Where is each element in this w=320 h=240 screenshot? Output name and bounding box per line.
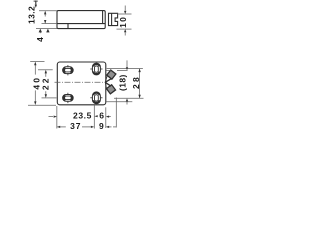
13.2 down arrow <box>44 20 46 24</box>
spring arms converging at plate edge <box>105 79 111 83</box>
stub down arrow <box>35 5 37 8</box>
22 <box>45 70 47 74</box>
stub above 13.2 text <box>35 1 37 5</box>
row1 <box>49 116 54 118</box>
4 up arrows <box>39 29 42 33</box>
side view housing body <box>57 11 118 29</box>
inner vertical line left <box>67 24 69 29</box>
ext parting <box>42 23 58 25</box>
wedges <box>105 70 116 94</box>
dimension thin lines, side view <box>34 1 132 36</box>
texts side view <box>27 6 128 42</box>
svg-text:37: 37 <box>70 121 81 131</box>
ext bottom <box>36 28 57 30</box>
28 arrows inside <box>138 69 140 73</box>
(18) dim line pieces <box>126 60 128 67</box>
left ext lines <box>30 61 44 63</box>
svg-text:28: 28 <box>131 75 141 89</box>
dim 10 right: ext lines <box>117 13 132 15</box>
centerline <box>55 81 107 83</box>
svg-text:6: 6 <box>99 111 104 121</box>
right-bottom slot <box>92 92 100 104</box>
left-bottom slot <box>63 95 74 102</box>
right-top slot <box>92 63 100 75</box>
dim 13.2 line <box>44 12 46 17</box>
row2 <box>58 126 66 128</box>
(18) arrows outside <box>126 67 128 70</box>
22 dim line <box>45 71 47 77</box>
arrowheads side view <box>35 5 127 33</box>
svg-text:4: 4 <box>35 37 45 42</box>
left-top slot <box>63 67 74 74</box>
svg-text:22: 22 <box>40 76 50 90</box>
10 arrows (outside) <box>124 11 126 14</box>
28 dim line <box>139 69 141 98</box>
svg-text:9: 9 <box>99 121 104 131</box>
right ext lines <box>107 67 143 69</box>
ext top <box>39 10 57 12</box>
slots <box>63 63 103 104</box>
dimension thin lines, front view <box>28 60 144 128</box>
inner vertical line right <box>102 11 104 24</box>
svg-text:23.5: 23.5 <box>73 111 92 121</box>
parting line <box>57 23 105 25</box>
texts front view <box>32 74 141 131</box>
svg-text:10: 10 <box>118 16 128 28</box>
svg-text:(18): (18) <box>117 74 127 91</box>
40 dim line <box>34 63 36 75</box>
row1 arrows <box>54 116 57 118</box>
bottom vertical ext lines <box>56 106 58 129</box>
row2 arrows <box>57 126 60 128</box>
arrowheads front view <box>34 62 141 128</box>
40 <box>34 62 36 66</box>
plunger <box>109 13 118 25</box>
13.2 up arrow <box>44 11 46 15</box>
svg-text:13.2: 13.2 <box>27 6 37 24</box>
arrow tails below bottom <box>39 31 41 33</box>
front view plate <box>57 62 106 105</box>
